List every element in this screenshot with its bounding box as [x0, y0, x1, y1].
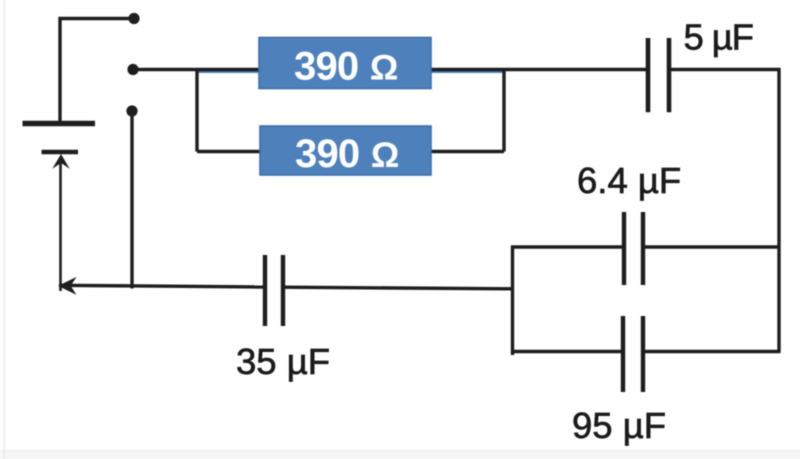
- wire 6.4uF branch right segment: [643, 245, 781, 248]
- blue connector ghost line under top wire: [197, 71, 504, 73]
- wire right vertical branch of resistor pair: [502, 70, 505, 152]
- node switch lower throw dot: [126, 105, 137, 116]
- wire 95uF branch left segment: [511, 350, 623, 353]
- wire bottom rail right of 35uF: [283, 287, 513, 289]
- wire battery negative lead: [59, 158, 62, 291]
- wire left vertical branch of resistor pair: [195, 70, 198, 152]
- capacitor C4 35uF plates: [265, 255, 283, 326]
- node switch upper throw dot: [127, 64, 138, 75]
- resistor R1 390 ohm (top): [259, 38, 431, 89]
- wire battery positive lead up and over to switch pole: [60, 19, 134, 123]
- wire 95uF branch right segment: [643, 350, 781, 353]
- wire switch lower throw lead down to bottom rail: [130, 111, 133, 289]
- svg-text:35 µF: 35 µF: [236, 341, 330, 382]
- svg-text:5 µF: 5 µF: [684, 17, 753, 58]
- wire 6.4uF branch left segment: [511, 245, 624, 248]
- wire from 5uF right plate to right edge and down: [669, 70, 779, 352]
- resistor R2 390 ohm (bottom): [260, 126, 431, 176]
- wire left vertical of parallel capacitor pair: [511, 246, 514, 355]
- wire lower resistor branch: [197, 150, 504, 153]
- battery V1 bottom plate (negative): [42, 150, 79, 154]
- node switch pole dot: [128, 13, 139, 24]
- battery V1 top plate (positive): [23, 121, 96, 127]
- svg-text:6.4 µF: 6.4 µF: [577, 160, 681, 201]
- capacitor C2 6.4uF plates: [624, 212, 643, 285]
- svg-text:95 µF: 95 µF: [572, 405, 666, 446]
- svg-text:390Ω: 390Ω: [295, 132, 399, 176]
- capacitor C1 5uF plates: [648, 38, 669, 112]
- arrowhead pointing left on bottom rail: [58, 277, 77, 295]
- wire main top from switch throw to 5uF left plate: [133, 68, 648, 71]
- svg-text:390Ω: 390Ω: [294, 45, 398, 89]
- capacitor C3 95uF plates: [623, 316, 643, 392]
- wire bottom rail left of 35uF: [59, 285, 265, 287]
- arrowhead pointing up at battery negative plate: [52, 154, 69, 169]
